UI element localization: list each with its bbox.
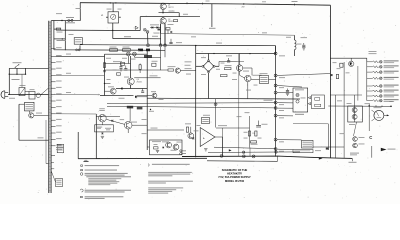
wire 275 to right 85 bbox=[277, 86, 302, 88]
wire opamp out bbox=[215, 136, 223, 138]
wire bias top rail 53 bbox=[196, 53, 276, 55]
node bubble return 243 bbox=[242, 151, 245, 154]
value label q13 base bbox=[142, 118, 147, 121]
capacitor C12 with ground bbox=[303, 43, 305, 45]
wire thermal left vertical bbox=[18, 104, 20, 140]
wire primary right drop bbox=[64, 21, 66, 51]
node top rail junction bbox=[243, 3, 244, 4]
wire long vertical 195 bbox=[195, 46, 197, 158]
wire link between rails bbox=[79, 45, 81, 50]
wire opamp fb row bbox=[216, 127, 249, 129]
diode D4 bbox=[121, 87, 123, 89]
switch S1 network bottom bbox=[9, 73, 25, 75]
labels regulator misc bbox=[131, 58, 136, 61]
connector output terminal 8 bbox=[379, 99, 382, 102]
wire meter top lead bbox=[112, 3, 114, 12]
node tick TP1 bbox=[202, 3, 204, 5]
connector AC plug bbox=[1, 91, 5, 99]
rectifier small parts upper bbox=[166, 28, 170, 31]
flat label box bbox=[293, 150, 313, 153]
svg-text:2N3055: 2N3055 bbox=[137, 82, 143, 84]
resistor output row 1 bbox=[373, 61, 379, 63]
value label tap feeds bbox=[66, 53, 71, 56]
panel meter M2 bbox=[374, 110, 384, 120]
resistor R41 bbox=[255, 131, 257, 136]
resistor output row 6 bbox=[373, 90, 379, 92]
resistor output row 4 bbox=[373, 77, 379, 79]
resistor R51 vert bbox=[336, 74, 338, 78]
wire thermal top link bbox=[19, 103, 25, 105]
svg-text:Q1: Q1 bbox=[168, 4, 170, 6]
wire 275 to right 92 bbox=[277, 92, 293, 94]
wire bridge bottom bbox=[208, 73, 210, 99]
resistor R18 small bbox=[117, 73, 121, 75]
wire rail end stub bbox=[351, 158, 353, 161]
node Q1 emitter junction bbox=[162, 12, 163, 13]
wire vertical 371 bbox=[371, 146, 373, 158]
wire secondary rail A bbox=[80, 45, 276, 46]
node bubble op-amp input bbox=[214, 103, 217, 106]
connector output terminal 3 bbox=[379, 71, 382, 74]
transistor Q6 bbox=[236, 65, 242, 71]
wire y57 link bbox=[134, 56, 160, 58]
label box current meter cal bbox=[127, 106, 133, 109]
wire output row 3 bbox=[367, 71, 373, 73]
connector output terminal 2 bbox=[379, 65, 382, 68]
diode D12 bbox=[112, 120, 114, 122]
wire right border vertical bbox=[329, 5, 331, 158]
wire Q1 emitter bbox=[162, 10, 164, 13]
parts below rectifier bbox=[158, 29, 161, 31]
resistor R1 surge bbox=[54, 28, 61, 30]
resistor R10 bbox=[103, 63, 105, 68]
value label top rail mid bbox=[206, 0, 210, 2]
node bubble rail 253 bbox=[252, 155, 255, 158]
capacitor C4 bbox=[103, 69, 106, 71]
wire bridge top feed bbox=[208, 54, 210, 60]
wire Q2 emitter down bbox=[160, 24, 162, 46]
transformer lower stubs bbox=[51, 162, 54, 164]
wire box out left bbox=[147, 146, 149, 148]
wire thermal bottom link bbox=[19, 139, 49, 141]
wire q6 to q7 link bbox=[243, 67, 252, 69]
parts near 326 bbox=[326, 148, 329, 150]
wire q3 base bbox=[105, 90, 111, 92]
value label ac input bbox=[20, 84, 26, 87]
wire r4x vertical bbox=[249, 116, 251, 148]
ground lower-left bbox=[101, 136, 104, 138]
resistor R15 on lower rail bbox=[123, 49, 131, 52]
node bubble rail A left bbox=[159, 44, 162, 47]
wire bottom border bbox=[78, 157, 207, 159]
capacitor C15 bbox=[256, 124, 261, 126]
label under border bbox=[84, 159, 87, 162]
box interior labels bbox=[177, 141, 182, 144]
wire slant to lower cluster bbox=[354, 122, 357, 136]
transistor Q12 bbox=[188, 133, 194, 139]
wire lower bias rail 98 bbox=[147, 97, 300, 100]
resistor R13 row bbox=[105, 69, 169, 71]
wire meter left stub bbox=[106, 16, 108, 18]
current limit box bbox=[150, 140, 183, 155]
node bubble rail A right bbox=[164, 44, 167, 47]
wire lowest rail segment bbox=[207, 160, 278, 163]
capacitor C5 bbox=[119, 66, 122, 68]
wire meter top lead bbox=[372, 110, 375, 112]
wire mid rail (bias) bbox=[161, 34, 295, 36]
wire base bus drop left bbox=[139, 17, 141, 31]
wire Q1 collector to rail bbox=[162, 2, 164, 4]
wire choke bottom bbox=[293, 50, 295, 56]
value label q3 bbox=[108, 85, 114, 88]
meter M1 movement bbox=[111, 14, 116, 19]
wire 275 to right 140 bbox=[277, 139, 301, 141]
wire bridge left bbox=[196, 65, 202, 67]
node rail bubble 195 bbox=[195, 45, 196, 46]
value label r4x bbox=[244, 131, 248, 134]
label above rail right bbox=[350, 153, 359, 154]
value label right col mid bbox=[333, 61, 337, 64]
resistor R33 bbox=[154, 147, 159, 149]
fuse F1 bbox=[68, 19, 70, 21]
resistor R50 bbox=[340, 63, 343, 67]
arrow chassis right bbox=[381, 148, 387, 151]
connector left end a bbox=[180, 150, 182, 152]
wire 365 drop bbox=[366, 58, 368, 62]
relay contact label a bbox=[315, 98, 320, 101]
wire drop 250 to rail bbox=[249, 148, 251, 157]
wire rect drop B lower bbox=[164, 47, 166, 58]
inductor L1 choke bbox=[294, 40, 296, 50]
value label bias rail bbox=[262, 31, 267, 34]
wire 275 to right 103 bbox=[277, 102, 293, 104]
meter M1 box bbox=[108, 12, 119, 23]
wire winding tap line bbox=[54, 38, 65, 40]
wire D3 drop bbox=[147, 33, 149, 44]
wire thermal box drop bbox=[29, 111, 31, 113]
resistor R23 bbox=[221, 75, 228, 77]
relay contact label b bbox=[315, 104, 321, 107]
wire meter bottom lead bbox=[372, 119, 375, 121]
node bubble 275-102 bbox=[274, 101, 277, 104]
transistor Q18 bbox=[353, 143, 358, 148]
svg-text:2N3772: 2N3772 bbox=[168, 7, 174, 9]
ground op-amp bbox=[204, 149, 207, 151]
wire q4 emitter bbox=[130, 85, 132, 89]
wire upper return rail bbox=[208, 151, 300, 154]
value label right col low bbox=[337, 99, 342, 102]
svg-text:Q2: Q2 bbox=[168, 19, 170, 21]
node tick TP2 bbox=[294, 4, 296, 6]
wire q11 emitter bbox=[127, 129, 129, 133]
wire output row 7 bbox=[367, 95, 373, 97]
wire q12 link bbox=[190, 127, 192, 133]
capacitor C2 near bus bbox=[170, 39, 172, 42]
wire vertical 344 bbox=[343, 62, 345, 158]
wire long vertical 147 bbox=[146, 51, 148, 150]
wire meter bottom lead bbox=[112, 23, 114, 39]
wire drop from top rail to primary switch line bbox=[79, 3, 81, 21]
relay box K1 bbox=[312, 95, 325, 109]
notes header word bbox=[84, 161, 89, 162]
wire Q2 base from bus bbox=[162, 17, 164, 18]
value label cluster top-left bbox=[56, 12, 62, 15]
transistor Q20 thermal bbox=[29, 113, 34, 118]
wire q3 emitter row bbox=[100, 95, 134, 97]
connector output terminal 6 bbox=[379, 90, 382, 93]
wire border left vertical bbox=[77, 132, 79, 159]
wire bridge right bbox=[215, 65, 219, 67]
capacitor C6 bbox=[141, 90, 144, 92]
node bubble D3 out bbox=[143, 28, 146, 31]
wire light row 123 bbox=[293, 123, 328, 125]
node meter shunt left bbox=[110, 2, 111, 3]
wire S1 stub a bbox=[16, 68, 18, 74]
lamp PL2 bbox=[133, 52, 137, 56]
wire meter bottom run to right bbox=[113, 38, 161, 40]
wire q6 base path bbox=[219, 61, 236, 63]
capacitor C10 bbox=[228, 58, 230, 60]
resistor output row 8 bbox=[373, 100, 379, 102]
wire vertical 354 bbox=[353, 95, 355, 122]
node bubble rail 243 bbox=[242, 155, 245, 158]
lamp in box a bbox=[296, 93, 299, 96]
switch S1 bbox=[15, 65, 19, 68]
transistor Q10 bbox=[99, 114, 107, 122]
note icon square 2 bbox=[81, 169, 83, 170]
resistor R3 q2 emitter bbox=[174, 20, 178, 22]
wire primary left drop bbox=[53, 21, 55, 50]
resistor output row 2 bbox=[373, 66, 379, 68]
wire d5 out bbox=[137, 96, 147, 98]
wire reg box out bbox=[313, 146, 344, 148]
transformer primary left line bbox=[45, 120, 47, 164]
wire output row 1 bbox=[367, 61, 373, 63]
wire lowest rail stub up bbox=[277, 156, 279, 161]
diode D22 bbox=[308, 103, 310, 105]
wire rect drop A lower bbox=[160, 47, 162, 70]
value label transformer top bbox=[57, 31, 63, 34]
wire row 116 bbox=[96, 115, 120, 117]
diode D2 bbox=[157, 26, 159, 28]
wire meter vertical feed bbox=[368, 103, 370, 131]
node tick rail mid bbox=[186, 2, 188, 4]
value label q10 q11 bbox=[99, 107, 105, 110]
driver box right bbox=[348, 106, 363, 122]
wire base bus Q2 bbox=[140, 16, 200, 18]
component box small bbox=[121, 62, 125, 65]
value label 275 col bbox=[279, 54, 285, 57]
note right header brace bbox=[147, 164, 150, 167]
connector output terminal 5 bbox=[379, 85, 382, 88]
wire tap feed 113 bbox=[56, 113, 97, 115]
wire rail A drop right bbox=[275, 46, 277, 54]
label under taps bbox=[56, 147, 64, 148]
thermal switch bbox=[36, 93, 40, 97]
wire q5 out bbox=[180, 70, 195, 72]
note right paragraph 1 bbox=[148, 172, 192, 173]
wire d5 to q8 bbox=[137, 95, 152, 97]
breaker box bbox=[29, 92, 35, 100]
wire q7 emitter drop bbox=[247, 82, 249, 99]
wire label row b bbox=[107, 106, 276, 108]
capacitor C18 with ground bbox=[287, 89, 289, 91]
tiny label meter top right bbox=[389, 100, 393, 103]
capacitor C7 bbox=[124, 68, 127, 70]
transistor Q13 bbox=[166, 142, 172, 148]
label 115-230 bbox=[295, 114, 304, 115]
wire output row 6 bbox=[367, 90, 373, 92]
note icon square 3 bbox=[81, 196, 83, 197]
transistor Q8 small bbox=[152, 93, 157, 98]
node bubble 275-53 bbox=[274, 52, 277, 55]
resistor R11 bbox=[139, 65, 141, 70]
wire AC hot bbox=[8, 94, 48, 96]
wire lower primary line bbox=[54, 49, 165, 52]
wire horizontal 95 right bbox=[330, 94, 362, 96]
wire feed 58 row bbox=[330, 57, 366, 59]
node bubble on rail A bbox=[147, 44, 150, 47]
junction label mid bbox=[150, 109, 151, 110]
wire AC neutral riser bbox=[8, 68, 10, 94]
label small right cluster bbox=[315, 149, 321, 152]
wire q3 collector row bbox=[105, 83, 111, 85]
resistor R16 on lower rail bbox=[138, 49, 143, 52]
transistor Q5 bbox=[175, 68, 180, 73]
thermal box bbox=[25, 102, 35, 111]
wire breaker link bbox=[25, 91, 29, 93]
value label choke bbox=[297, 43, 302, 46]
component box under q10 bbox=[95, 125, 114, 132]
svg-text:2N3055: 2N3055 bbox=[168, 21, 174, 23]
wire border bottom left bbox=[96, 158, 100, 160]
op-amp U1 bbox=[200, 128, 215, 147]
node bubble return 276 bbox=[275, 151, 278, 154]
wire fuse drop bbox=[21, 74, 23, 87]
transformer secondary taps bbox=[51, 48, 55, 50]
transistor Q16 bbox=[352, 114, 357, 119]
wire bottom negative rail bbox=[182, 156, 352, 158]
wire rect top link bbox=[150, 27, 161, 29]
diode in box bbox=[163, 146, 164, 148]
value label limiter bbox=[162, 140, 169, 143]
lamp in box b bbox=[296, 100, 299, 103]
resistor R30 vertical bbox=[186, 127, 188, 132]
wire q9 stub bbox=[350, 58, 352, 61]
wire vertical 335 bbox=[334, 95, 336, 158]
wire q6 emitter link bbox=[239, 71, 241, 75]
diode D13 bbox=[192, 138, 194, 140]
resistor R42 bbox=[251, 141, 257, 143]
wire S1 stub b bbox=[25, 68, 27, 74]
node bubble 275-115 bbox=[274, 114, 277, 117]
wire output row 4 bbox=[367, 77, 373, 79]
wire to primary bbox=[41, 88, 49, 95]
wire low-voltage winding run bbox=[61, 29, 140, 32]
label box hatched bbox=[137, 107, 143, 110]
svg-text:M1: M1 bbox=[101, 15, 103, 17]
note indented list bbox=[88, 177, 121, 180]
transformer T1 core bbox=[49, 21, 52, 193]
node meter shunt right bbox=[115, 2, 116, 3]
arrow on rail bbox=[319, 157, 323, 159]
wire lamp PL2 drop bbox=[133, 56, 135, 57]
value label q12 bbox=[185, 122, 191, 125]
svg-text:7.5V, 50A POWER SUPPLY: 7.5V, 50A POWER SUPPLY bbox=[218, 175, 251, 179]
note right paragraph 2 bbox=[148, 181, 193, 182]
node bubble D3 out2 bbox=[146, 31, 149, 34]
node bubble 275-75 bbox=[274, 74, 277, 77]
diode D3 bbox=[135, 26, 138, 29]
resistor output row 7 bbox=[373, 95, 379, 97]
note icon square 1 bbox=[81, 165, 83, 166]
wire drop to base bus bbox=[178, 13, 180, 17]
resistor R12 bbox=[152, 63, 156, 66]
wire q11 out right bbox=[132, 124, 147, 126]
wire lower row 147 bbox=[214, 147, 276, 149]
labels error amp misc bbox=[221, 62, 225, 65]
ground in box bbox=[156, 151, 159, 153]
wire plug to line bbox=[8, 94, 10, 96]
transistor Q15 bbox=[352, 108, 357, 113]
node bubble 275-108 bbox=[274, 107, 277, 110]
wire q10 emitter to box bbox=[101, 122, 103, 125]
value labels q5 right bbox=[185, 60, 192, 63]
value label q-emitter bbox=[169, 10, 175, 13]
wire meter feed row 106 bbox=[328, 105, 391, 107]
node primary junction bbox=[61, 20, 62, 21]
resistor R14 on lower rail bbox=[110, 49, 118, 52]
resistor R22 bbox=[225, 68, 232, 70]
wire tap feed 75 bbox=[56, 75, 104, 77]
wire output row 5 bbox=[367, 85, 373, 87]
value label driver box bbox=[349, 123, 355, 126]
wire lamp PL1 drop bbox=[127, 56, 129, 64]
wire 275 to right 108 bbox=[277, 107, 293, 109]
wire tap feed 56 bbox=[56, 55, 105, 57]
value label q6 area bbox=[243, 70, 249, 73]
transistor Q4 bbox=[127, 78, 134, 85]
label plate bbox=[144, 55, 152, 58]
wire tap feed 94 bbox=[56, 94, 100, 96]
wire ref right bbox=[269, 78, 276, 80]
reg label box bbox=[302, 140, 314, 148]
wire terminal column 275 bbox=[275, 46, 277, 157]
wire 275 to right 149 bbox=[277, 148, 293, 151]
value label r28 bbox=[97, 127, 101, 130]
connector output terminal 1 bbox=[379, 60, 382, 63]
wire bias drop bbox=[293, 35, 295, 40]
wire meter right stub bbox=[119, 16, 121, 18]
value label meter row bbox=[107, 8, 112, 11]
svg-text:HEATHKIT®: HEATHKIT® bbox=[227, 172, 242, 176]
transistor Q11 bbox=[124, 121, 132, 129]
transistor Q9 bbox=[349, 61, 354, 66]
wire rect drop A bbox=[160, 24, 162, 34]
wire opamp out drop bbox=[222, 137, 224, 156]
diode D20 bbox=[331, 74, 333, 76]
wire center drop 238 bbox=[238, 54, 240, 157]
value label lamp bases bbox=[106, 57, 111, 60]
wire q6 top bbox=[239, 54, 241, 65]
wire output row 8 bbox=[367, 100, 373, 102]
wire q4 feed bbox=[130, 56, 132, 78]
rectifier bridge D7-D10 bbox=[203, 61, 214, 72]
wire output bus 2 bbox=[357, 66, 359, 101]
transistor Q17 bbox=[353, 137, 358, 142]
wire q11 vertical feed bbox=[129, 107, 131, 122]
svg-text:SCHEMATIC OF THE: SCHEMATIC OF THE bbox=[222, 168, 248, 172]
